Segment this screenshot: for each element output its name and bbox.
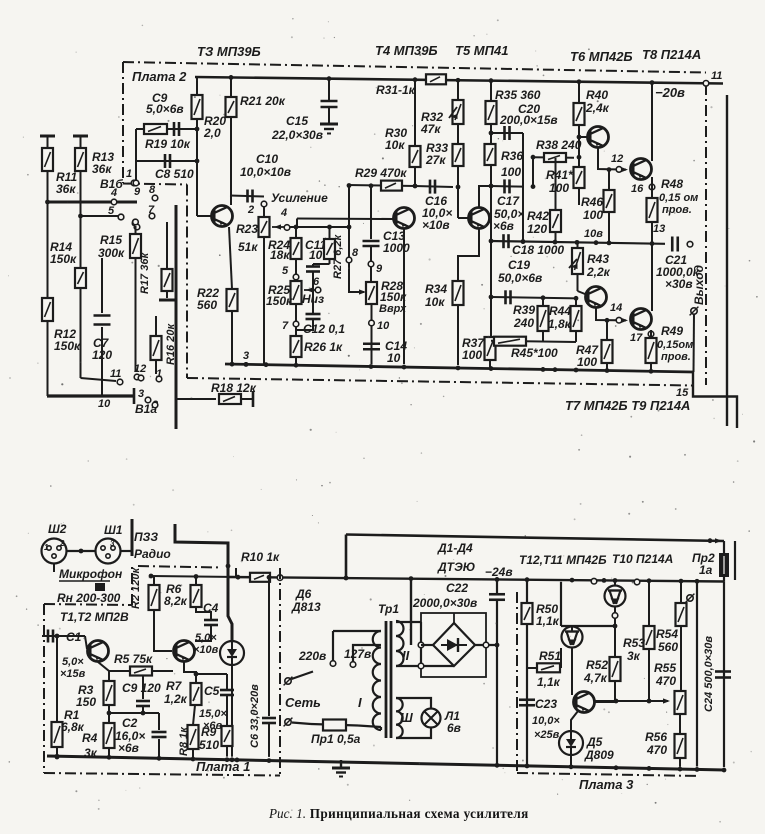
svg-text:С19: С19 — [508, 258, 530, 272]
svg-text:пров.: пров. — [661, 351, 691, 363]
svg-text:4: 4 — [110, 187, 117, 199]
svg-text:R49: R49 — [661, 324, 683, 338]
svg-text:3: 3 — [110, 539, 115, 548]
svg-text:10: 10 — [98, 398, 111, 410]
svg-text:10: 10 — [309, 248, 323, 262]
svg-text:Д6: Д6 — [295, 587, 312, 601]
svg-text:220в: 220в — [298, 649, 326, 663]
svg-text:10к: 10к — [425, 295, 445, 309]
svg-text:×6в: ×6в — [118, 741, 139, 755]
svg-text:R48: R48 — [661, 177, 683, 191]
svg-text:×6в: ×6в — [203, 720, 223, 732]
svg-text:47к: 47к — [420, 122, 441, 136]
svg-text:R2 120к: R2 120к — [130, 567, 142, 609]
svg-text:С6 33,0×20в: С6 33,0×20в — [249, 684, 261, 748]
svg-text:Д5: Д5 — [586, 735, 603, 749]
svg-text:×15в: ×15в — [60, 668, 86, 680]
svg-text:С5: С5 — [204, 684, 220, 698]
svg-text:Вврх: Вврх — [379, 303, 407, 315]
svg-text:Тр1: Тр1 — [378, 602, 399, 616]
svg-text:1: 1 — [156, 368, 162, 380]
svg-text:Плата 2: Плата 2 — [132, 69, 187, 84]
svg-text:8,2к: 8,2к — [164, 594, 188, 608]
svg-text:1000: 1000 — [383, 241, 410, 255]
svg-text:II: II — [402, 648, 410, 663]
svg-text:100: 100 — [577, 355, 597, 369]
svg-text:6в: 6в — [447, 721, 461, 735]
svg-text:15: 15 — [676, 387, 689, 399]
svg-text:Д813: Д813 — [291, 600, 321, 614]
svg-text:4,7к: 4,7к — [583, 671, 608, 685]
svg-text:С17: С17 — [497, 194, 520, 208]
svg-text:Микрофон: Микрофон — [59, 567, 123, 581]
svg-text:С22: С22 — [446, 581, 468, 595]
svg-text:1: 1 — [44, 543, 49, 552]
svg-text:36к: 36к — [92, 162, 112, 176]
svg-text:127в: 127в — [344, 647, 371, 661]
svg-text:С10: С10 — [256, 152, 278, 166]
svg-text:Ш: Ш — [400, 710, 413, 725]
svg-text:ТЗ МП39Б: ТЗ МП39Б — [197, 44, 261, 59]
svg-text:R52: R52 — [586, 658, 608, 672]
svg-text:1а: 1а — [699, 563, 713, 577]
svg-text:Т7 МП42Б Т9 П214А: Т7 МП42Б Т9 П214А — [565, 398, 690, 413]
svg-text:Т1,Т2 МП2В: Т1,Т2 МП2В — [60, 610, 129, 624]
svg-text:11: 11 — [711, 70, 722, 82]
svg-text:9: 9 — [376, 263, 383, 275]
svg-text:300к: 300к — [98, 246, 125, 260]
svg-text:ПЗЗ: ПЗЗ — [134, 530, 158, 544]
svg-text:Т12,Т11 МП42Б: Т12,Т11 МП42Б — [519, 553, 607, 567]
svg-text:Рис. 1. Принципиальная схема у: Рис. 1. Принципиальная схема усилителя — [268, 806, 529, 821]
svg-text:16: 16 — [631, 183, 644, 195]
svg-text:R44: R44 — [549, 304, 571, 318]
svg-text:С23: С23 — [535, 697, 557, 711]
svg-text:0,15 ом: 0,15 ом — [659, 192, 698, 204]
svg-text:×10в: ×10в — [422, 218, 450, 232]
svg-text:R29 470к: R29 470к — [355, 166, 407, 180]
svg-text:3: 3 — [138, 388, 144, 400]
svg-text:2,0: 2,0 — [203, 126, 221, 140]
svg-text:150к: 150к — [266, 294, 293, 308]
svg-text:13: 13 — [653, 223, 665, 235]
svg-text:R43: R43 — [587, 252, 609, 266]
svg-text:470: 470 — [646, 743, 667, 757]
svg-text:С1: С1 — [66, 630, 82, 644]
svg-text:R10 1к: R10 1к — [241, 550, 280, 564]
svg-text:Rн 200-300: Rн 200-300 — [57, 591, 121, 605]
svg-text:5,0×6в: 5,0×6в — [146, 102, 184, 116]
svg-text:Т8 П214А: Т8 П214А — [642, 47, 701, 62]
svg-text:17: 17 — [630, 332, 643, 344]
svg-text:R15: R15 — [100, 233, 122, 247]
svg-text:Д1-Д4: Д1-Д4 — [437, 541, 473, 555]
svg-text:R36: R36 — [501, 149, 523, 163]
svg-text:150: 150 — [76, 695, 96, 709]
svg-text:Пр1 0,5а: Пр1 0,5а — [311, 732, 361, 746]
svg-text:R41*: R41* — [546, 168, 574, 182]
svg-text:R55: R55 — [654, 661, 676, 675]
svg-text:R8 1к: R8 1к — [178, 726, 190, 756]
svg-text:Ш2: Ш2 — [48, 522, 67, 536]
svg-text:1,2к: 1,2к — [164, 692, 188, 706]
svg-text:120: 120 — [527, 222, 547, 236]
svg-text:×10в: ×10в — [193, 644, 219, 656]
svg-text:R56: R56 — [645, 730, 667, 744]
svg-text:пров.: пров. — [662, 204, 692, 216]
svg-text:510: 510 — [199, 738, 219, 752]
svg-text:ДТЭЮ: ДТЭЮ — [437, 560, 475, 574]
svg-text:−20в: −20в — [655, 85, 685, 100]
svg-text:R42: R42 — [527, 209, 549, 223]
svg-text:10к: 10к — [385, 138, 405, 152]
svg-text:Выход: Выход — [692, 265, 706, 305]
svg-text:15,0×: 15,0× — [199, 708, 227, 720]
svg-text:18к: 18к — [270, 248, 290, 262]
svg-text:10,0×10в: 10,0×10в — [240, 165, 291, 179]
svg-text:10,0×: 10,0× — [532, 715, 560, 727]
svg-text:С2: С2 — [122, 716, 138, 730]
svg-text:1: 1 — [126, 168, 132, 180]
svg-text:100: 100 — [549, 181, 569, 195]
svg-text:R26 1к: R26 1к — [304, 340, 343, 354]
svg-text:27к: 27к — [425, 153, 446, 167]
svg-text:11: 11 — [110, 368, 121, 380]
svg-text:10в: 10в — [584, 228, 603, 240]
svg-text:6: 6 — [313, 276, 320, 288]
svg-text:Т6 МП42Б: Т6 МП42Б — [570, 49, 633, 64]
svg-text:R19 10к: R19 10к — [145, 137, 191, 151]
svg-text:R35 360: R35 360 — [495, 88, 541, 102]
svg-text:С15: С15 — [286, 114, 308, 128]
svg-text:8: 8 — [352, 247, 359, 259]
svg-text:R53: R53 — [623, 636, 645, 650]
svg-text:2: 2 — [247, 204, 254, 216]
svg-text:×25в: ×25в — [534, 729, 560, 741]
svg-text:100: 100 — [583, 208, 603, 222]
svg-text:3: 3 — [243, 350, 249, 362]
svg-text:36к: 36к — [56, 182, 76, 196]
svg-text:R21 20к: R21 20к — [240, 94, 286, 108]
svg-text:Т10 П214А: Т10 П214А — [612, 552, 673, 566]
svg-text:R46: R46 — [581, 195, 603, 209]
svg-text:560: 560 — [197, 298, 217, 312]
svg-text:3к: 3к — [627, 649, 641, 663]
svg-text:Т4 МП39Б: Т4 МП39Б — [375, 43, 438, 58]
svg-text:1,1к: 1,1к — [536, 614, 560, 628]
svg-text:5,0×: 5,0× — [62, 656, 84, 668]
svg-text:R45*100: R45*100 — [511, 346, 558, 360]
svg-text:5: 5 — [108, 205, 115, 217]
svg-text:Усиление: Усиление — [271, 191, 328, 205]
svg-text:100: 100 — [462, 348, 482, 362]
svg-text:R18 12к: R18 12к — [211, 381, 257, 395]
svg-text:2000,0×30в: 2000,0×30в — [412, 596, 477, 610]
svg-text:R31-1к: R31-1к — [376, 83, 416, 97]
svg-text:С9 120: С9 120 — [122, 681, 161, 695]
svg-text:R38 240: R38 240 — [536, 138, 582, 152]
svg-text:R27 6,2к: R27 6,2к — [332, 233, 344, 279]
svg-text:Сеть: Сеть — [285, 695, 321, 710]
svg-text:R54: R54 — [656, 627, 678, 641]
svg-text:150к: 150к — [50, 252, 77, 266]
svg-text:0,15ом: 0,15ом — [657, 339, 693, 351]
svg-text:120: 120 — [92, 348, 112, 362]
svg-text:С8 510: С8 510 — [155, 167, 194, 181]
svg-text:1,8к: 1,8к — [548, 317, 572, 331]
svg-text:4: 4 — [280, 207, 287, 219]
svg-text:R17 36к: R17 36к — [139, 252, 151, 294]
svg-text:R23: R23 — [236, 222, 258, 236]
svg-text:С12 0,1: С12 0,1 — [303, 322, 345, 336]
svg-text:R39: R39 — [513, 303, 535, 317]
svg-text:R34: R34 — [425, 282, 447, 296]
svg-text:С18 1000: С18 1000 — [512, 243, 564, 257]
svg-text:12: 12 — [134, 363, 146, 375]
svg-text:−24в: −24в — [485, 565, 513, 579]
svg-text:Т5 МП41: Т5 МП41 — [455, 43, 508, 58]
svg-text:200,0×15в: 200,0×15в — [499, 113, 558, 127]
svg-text:5: 5 — [282, 265, 289, 277]
svg-text:2: 2 — [59, 539, 65, 548]
svg-text:×6в: ×6в — [493, 219, 514, 233]
svg-text:Ш1: Ш1 — [104, 523, 123, 537]
svg-text:Д809: Д809 — [584, 748, 614, 762]
svg-text:150к: 150к — [54, 339, 81, 353]
svg-text:22,0×30в: 22,0×30в — [271, 128, 323, 142]
svg-text:2,4к: 2,4к — [585, 101, 610, 115]
svg-text:14: 14 — [610, 302, 622, 314]
svg-text:×30в: ×30в — [665, 277, 693, 291]
svg-text:10: 10 — [387, 351, 401, 365]
svg-text:240: 240 — [513, 316, 534, 330]
svg-text:I: I — [358, 695, 362, 710]
svg-text:5,0×: 5,0× — [195, 632, 217, 644]
svg-text:100: 100 — [501, 165, 521, 179]
svg-text:12: 12 — [611, 153, 623, 165]
svg-text:R7: R7 — [166, 679, 183, 693]
svg-text:10: 10 — [377, 320, 390, 332]
svg-text:R40: R40 — [586, 88, 608, 102]
svg-text:2,2к: 2,2к — [586, 265, 611, 279]
svg-text:Плата 3: Плата 3 — [579, 777, 634, 792]
svg-text:R5 75к: R5 75к — [114, 652, 153, 666]
svg-text:Плата 1: Плата 1 — [196, 759, 250, 774]
svg-text:51к: 51к — [238, 240, 258, 254]
svg-text:R4: R4 — [82, 731, 98, 745]
svg-text:Радио: Радио — [134, 547, 171, 561]
svg-text:150к: 150к — [380, 290, 407, 304]
svg-text:7: 7 — [282, 320, 289, 332]
svg-text:С24 500,0×30в: С24 500,0×30в — [703, 636, 715, 712]
svg-text:560: 560 — [658, 640, 678, 654]
svg-text:50,0×6в: 50,0×6в — [498, 271, 542, 285]
svg-text:1,1к: 1,1к — [537, 675, 561, 689]
svg-text:8: 8 — [149, 184, 156, 196]
svg-text:9: 9 — [134, 186, 141, 198]
svg-text:R51: R51 — [539, 649, 561, 663]
